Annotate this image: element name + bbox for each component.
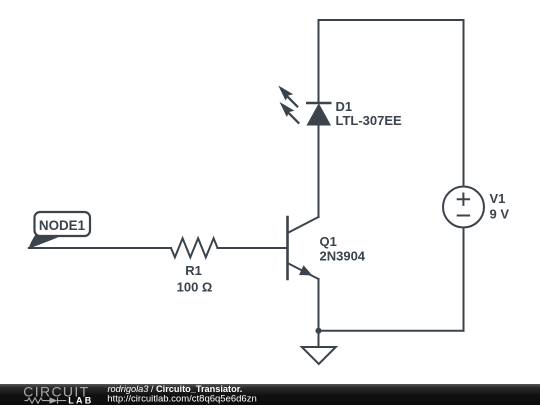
svg-text:9 V: 9 V [490, 207, 510, 222]
node NODE1 flag box [35, 212, 91, 236]
transistor Q1 emitter arrowhead [300, 266, 311, 275]
transistor Q1 base bar [286, 217, 289, 279]
wire NODE1 to R1 [29, 247, 171, 249]
voltage source V1 minus sign [457, 215, 470, 217]
wire emitter down to junction [318, 279, 320, 331]
junction dot [316, 328, 322, 334]
wire V1 bottom to bottom rail [463, 228, 465, 331]
resistor R1 [171, 238, 218, 257]
LED D1 cathode bar [306, 102, 332, 104]
wire right rail to V1 top [463, 20, 465, 187]
transistor Q1 emitter diagonal [288, 263, 319, 279]
svg-text:V1: V1 [490, 191, 506, 206]
voltage source V1 circle [443, 187, 484, 228]
voltage source V1 plus sign [457, 193, 470, 206]
wire R1 to Q1 base [218, 247, 287, 249]
svg-text:2N3904: 2N3904 [320, 249, 366, 264]
wire bottom rail [319, 330, 464, 332]
svg-text:rodrigola3 / Circuito_Transiat: rodrigola3 / Circuito_Transiator. [108, 384, 243, 394]
wire LED cathode up to top rail [318, 20, 320, 103]
transistor Q1 collector diagonal [288, 217, 319, 233]
wire top rail [319, 19, 464, 21]
LED D1 emission arrow upper [278, 86, 299, 109]
svg-text:NODE1: NODE1 [39, 218, 86, 233]
svg-text:D1: D1 [336, 99, 353, 114]
node NODE1 flag tail [29, 234, 59, 249]
svg-text:R1: R1 [185, 263, 202, 278]
CircuitLab logo schematic squiggle [25, 397, 67, 403]
LED D1 triangle [307, 104, 330, 125]
CircuitLab logo diode triangle [50, 397, 58, 403]
wire junction to ground [318, 331, 320, 347]
LED D1 emission arrow lower [280, 102, 301, 125]
svg-text:100 Ω: 100 Ω [177, 279, 213, 294]
svg-text:Q1: Q1 [320, 234, 337, 249]
svg-text:LAB: LAB [68, 396, 93, 405]
svg-text:LTL-307EE: LTL-307EE [336, 113, 403, 128]
wire collector up to LED [318, 125, 320, 217]
svg-text:http://circuitlab.com/ct8q6q5e: http://circuitlab.com/ct8q6q5e6d6zn [107, 393, 256, 404]
ground [302, 347, 336, 364]
